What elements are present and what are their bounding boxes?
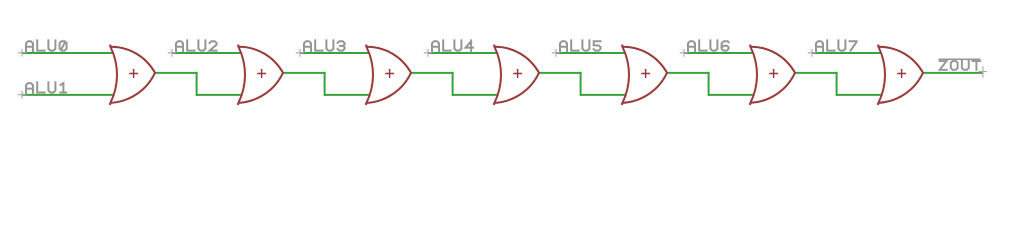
net label ZOUT (active-low, with overbar) (940, 60, 981, 69)
net label ALU6 (688, 40, 729, 51)
label origin cross ALU5 (552, 49, 561, 57)
net label ALU0 (26, 40, 67, 51)
or-gate G2 body (238, 45, 283, 106)
label origin cross ALU4 (424, 49, 433, 57)
wire horizontal segment into gate G5 bottom input (581, 94, 631, 96)
wire net ALU2 horizontal into gate G2 top input (172, 52, 247, 54)
net label ALU7 (816, 40, 857, 51)
wire vertical step-down segment after gate G6 (836, 72, 838, 96)
wire net ALU0 horizontal into gate G1 top input (22, 52, 119, 54)
label origin cross ALU3 (296, 49, 305, 57)
net label ALU1 (26, 82, 66, 93)
wire net ALU5 horizontal into gate G5 top input (556, 52, 631, 54)
wire gate G4 output horizontal segment (539, 72, 582, 74)
wire net ALU4 horizontal into gate G4 top input (428, 52, 503, 54)
plus (OR) symbol inside gate G4 (513, 69, 522, 78)
wire net ALU1 horizontal into gate G1 bottom input (22, 94, 118, 96)
net label ALU4 (432, 40, 473, 51)
label origin cross ZOUT (978, 66, 987, 77)
or-gate G5 body (622, 45, 667, 106)
plus (OR) symbol inside gate G6 (769, 69, 778, 78)
wire net ALU3 horizontal into gate G3 top input (300, 52, 375, 54)
wire net ALU6 horizontal into gate G6 top input (684, 52, 759, 54)
or-gate G1 body (110, 45, 155, 106)
label origin cross ALU6 (680, 49, 689, 57)
plus (OR) symbol inside gate G2 (257, 69, 266, 78)
plus (OR) symbol inside gate G3 (385, 69, 394, 78)
wire vertical step-down segment after gate G5 (708, 72, 710, 96)
wire horizontal segment into gate G3 bottom input (325, 94, 375, 96)
plus (OR) symbol inside gate G1 (129, 69, 138, 78)
wire net ZOUT output of gate G7 (923, 72, 983, 74)
wire horizontal segment into gate G2 bottom input (197, 94, 247, 96)
label origin cross ALU1 (18, 91, 27, 99)
label origin cross ALU7 (808, 49, 817, 57)
wire vertical step-down segment after gate G2 (324, 72, 326, 96)
plus (OR) symbol inside gate G7 (897, 69, 906, 78)
wire horizontal segment into gate G7 bottom input (837, 94, 887, 96)
or-gate G6 body (750, 45, 795, 106)
wire vertical step-down segment after gate G4 (580, 72, 582, 96)
or-gate G4 body (494, 45, 539, 106)
or-gate G7 body (878, 45, 923, 106)
wire net ALU7 horizontal into gate G7 top input (812, 52, 887, 54)
label origin cross ALU0 (18, 49, 27, 57)
net label ALU5 (560, 40, 601, 51)
wire gate G5 output horizontal segment (667, 72, 710, 74)
net label ALU3 (304, 40, 345, 51)
label origin cross ALU2 (168, 49, 177, 57)
or-gate G3 body (366, 45, 411, 106)
wire gate G6 output horizontal segment (795, 72, 838, 74)
wire vertical step-down segment after gate G3 (452, 72, 454, 96)
wire horizontal segment into gate G6 bottom input (709, 94, 759, 96)
wire gate G1 output horizontal segment (155, 72, 198, 74)
wire vertical step-down segment after gate G1 (196, 72, 198, 96)
wire horizontal segment into gate G4 bottom input (453, 94, 503, 96)
wire gate G3 output horizontal segment (411, 72, 454, 74)
wire gate G2 output horizontal segment (283, 72, 326, 74)
plus (OR) symbol inside gate G5 (641, 69, 650, 78)
overbar above ZOUT label (939, 58, 981, 60)
net label ALU2 (176, 40, 217, 51)
